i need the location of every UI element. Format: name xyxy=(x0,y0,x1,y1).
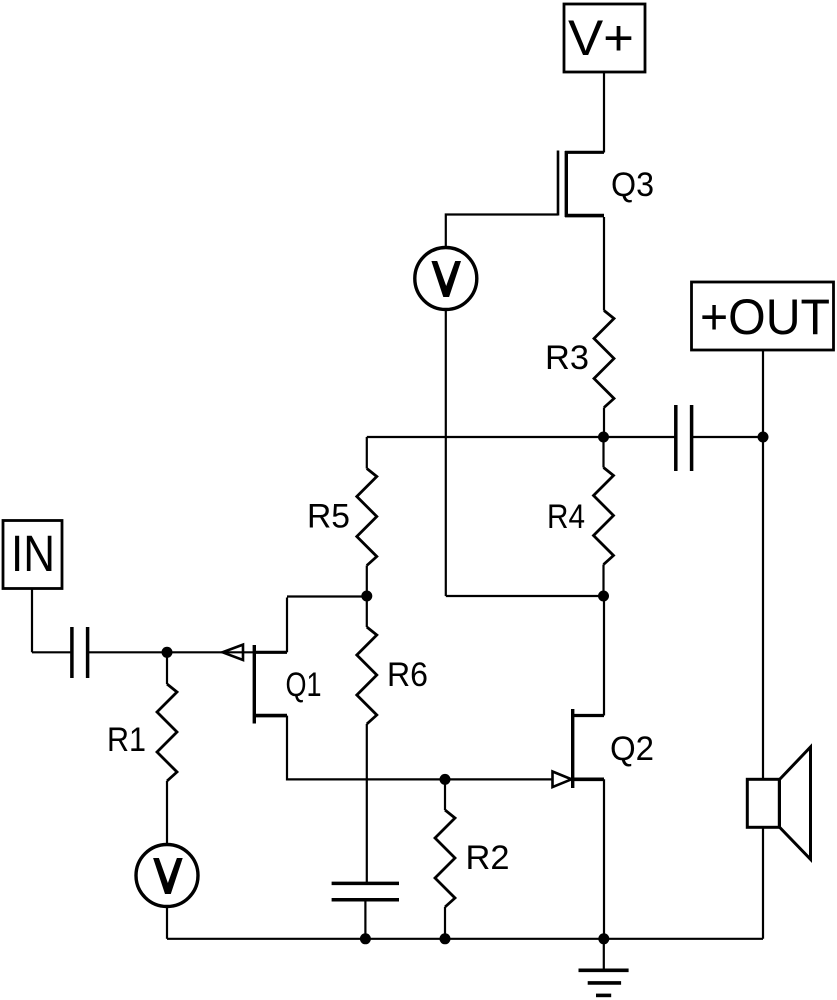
resistor R6 xyxy=(357,596,428,724)
svg-text:R4: R4 xyxy=(547,498,585,536)
wire Q3 source to R3 xyxy=(603,217,605,311)
svg-text:R3: R3 xyxy=(545,339,589,377)
wire VM2 to ground rail xyxy=(166,907,168,939)
terminal box IN xyxy=(3,521,62,589)
wire R3 to output node xyxy=(603,408,605,438)
wire input node to Q1 gate xyxy=(167,651,254,653)
node R4 bottom / Q2 drain xyxy=(598,591,609,602)
capacitor bottom (bypass) xyxy=(332,883,399,899)
transistor Q2 xyxy=(553,596,655,939)
wire IN box down and right to capacitor xyxy=(32,589,71,653)
speaker SP1 xyxy=(747,747,810,859)
capacitor input xyxy=(72,627,88,678)
wire output node horizontal xyxy=(367,436,675,438)
wire ground rail xyxy=(167,938,763,940)
svg-text:R5: R5 xyxy=(307,498,350,536)
wire +OUT down to speaker xyxy=(762,350,764,779)
wire Q1 drain to node xyxy=(287,595,367,597)
wire R5 top corner xyxy=(366,437,368,469)
capacitor output xyxy=(676,405,692,471)
svg-text:Q1: Q1 xyxy=(286,666,322,704)
transistor Q1 xyxy=(223,598,322,781)
wire V+ to Q3 drain xyxy=(603,72,605,153)
wire speaker to ground rail xyxy=(762,827,764,938)
wire R2 to ground rail xyxy=(444,907,446,939)
node +OUT junction xyxy=(758,432,769,443)
svg-text:R2: R2 xyxy=(466,839,510,877)
resistor R1 xyxy=(107,684,177,781)
node output junction xyxy=(598,432,609,443)
node ground junction on rail xyxy=(598,933,609,944)
wire cap to +OUT line xyxy=(693,436,763,438)
terminal box V+ xyxy=(564,4,645,72)
resistor R5 xyxy=(307,469,377,566)
svg-text:+OUT: +OUT xyxy=(700,289,830,345)
transistor Q3 xyxy=(558,151,654,218)
svg-text:R1: R1 xyxy=(107,721,146,759)
ground xyxy=(579,939,629,996)
wire capacitor to ground rail xyxy=(364,901,366,939)
node input junction xyxy=(162,647,173,658)
wire R5 to node xyxy=(366,566,368,597)
voltmeter VM1 xyxy=(415,248,477,310)
node R5/R6/Q1 drain xyxy=(361,591,372,602)
node bypass cap on rail xyxy=(360,933,371,944)
wire node to R2 xyxy=(444,779,446,810)
wire Q3 gate to voltmeter VM1 xyxy=(446,215,558,247)
resistor R2 xyxy=(435,810,510,907)
wire R6 down to capacitor xyxy=(366,724,368,882)
node R2 top xyxy=(440,774,451,785)
wire Q1 source rail to R2 node and Q2 gate xyxy=(287,778,572,780)
wire R1 to voltmeter VM2 xyxy=(166,781,168,844)
terminal box +OUT xyxy=(692,282,834,350)
svg-text:R6: R6 xyxy=(387,656,428,694)
svg-text:Q3: Q3 xyxy=(611,166,654,204)
wire node to R1 xyxy=(166,652,168,684)
node R2 bottom on rail xyxy=(440,933,451,944)
wire R4 to node xyxy=(602,565,604,597)
voltmeter VM2 xyxy=(136,845,198,907)
resistor R3 xyxy=(545,311,614,408)
wire node to R4 xyxy=(602,437,604,468)
wire capacitor to input node xyxy=(89,651,167,653)
resistor R4 xyxy=(547,468,614,565)
wire VM1 bottom down and right to R4 bottom node xyxy=(446,310,604,597)
svg-text:Q2: Q2 xyxy=(610,730,654,768)
svg-text:IN: IN xyxy=(11,525,55,582)
svg-text:V+: V+ xyxy=(568,10,634,66)
